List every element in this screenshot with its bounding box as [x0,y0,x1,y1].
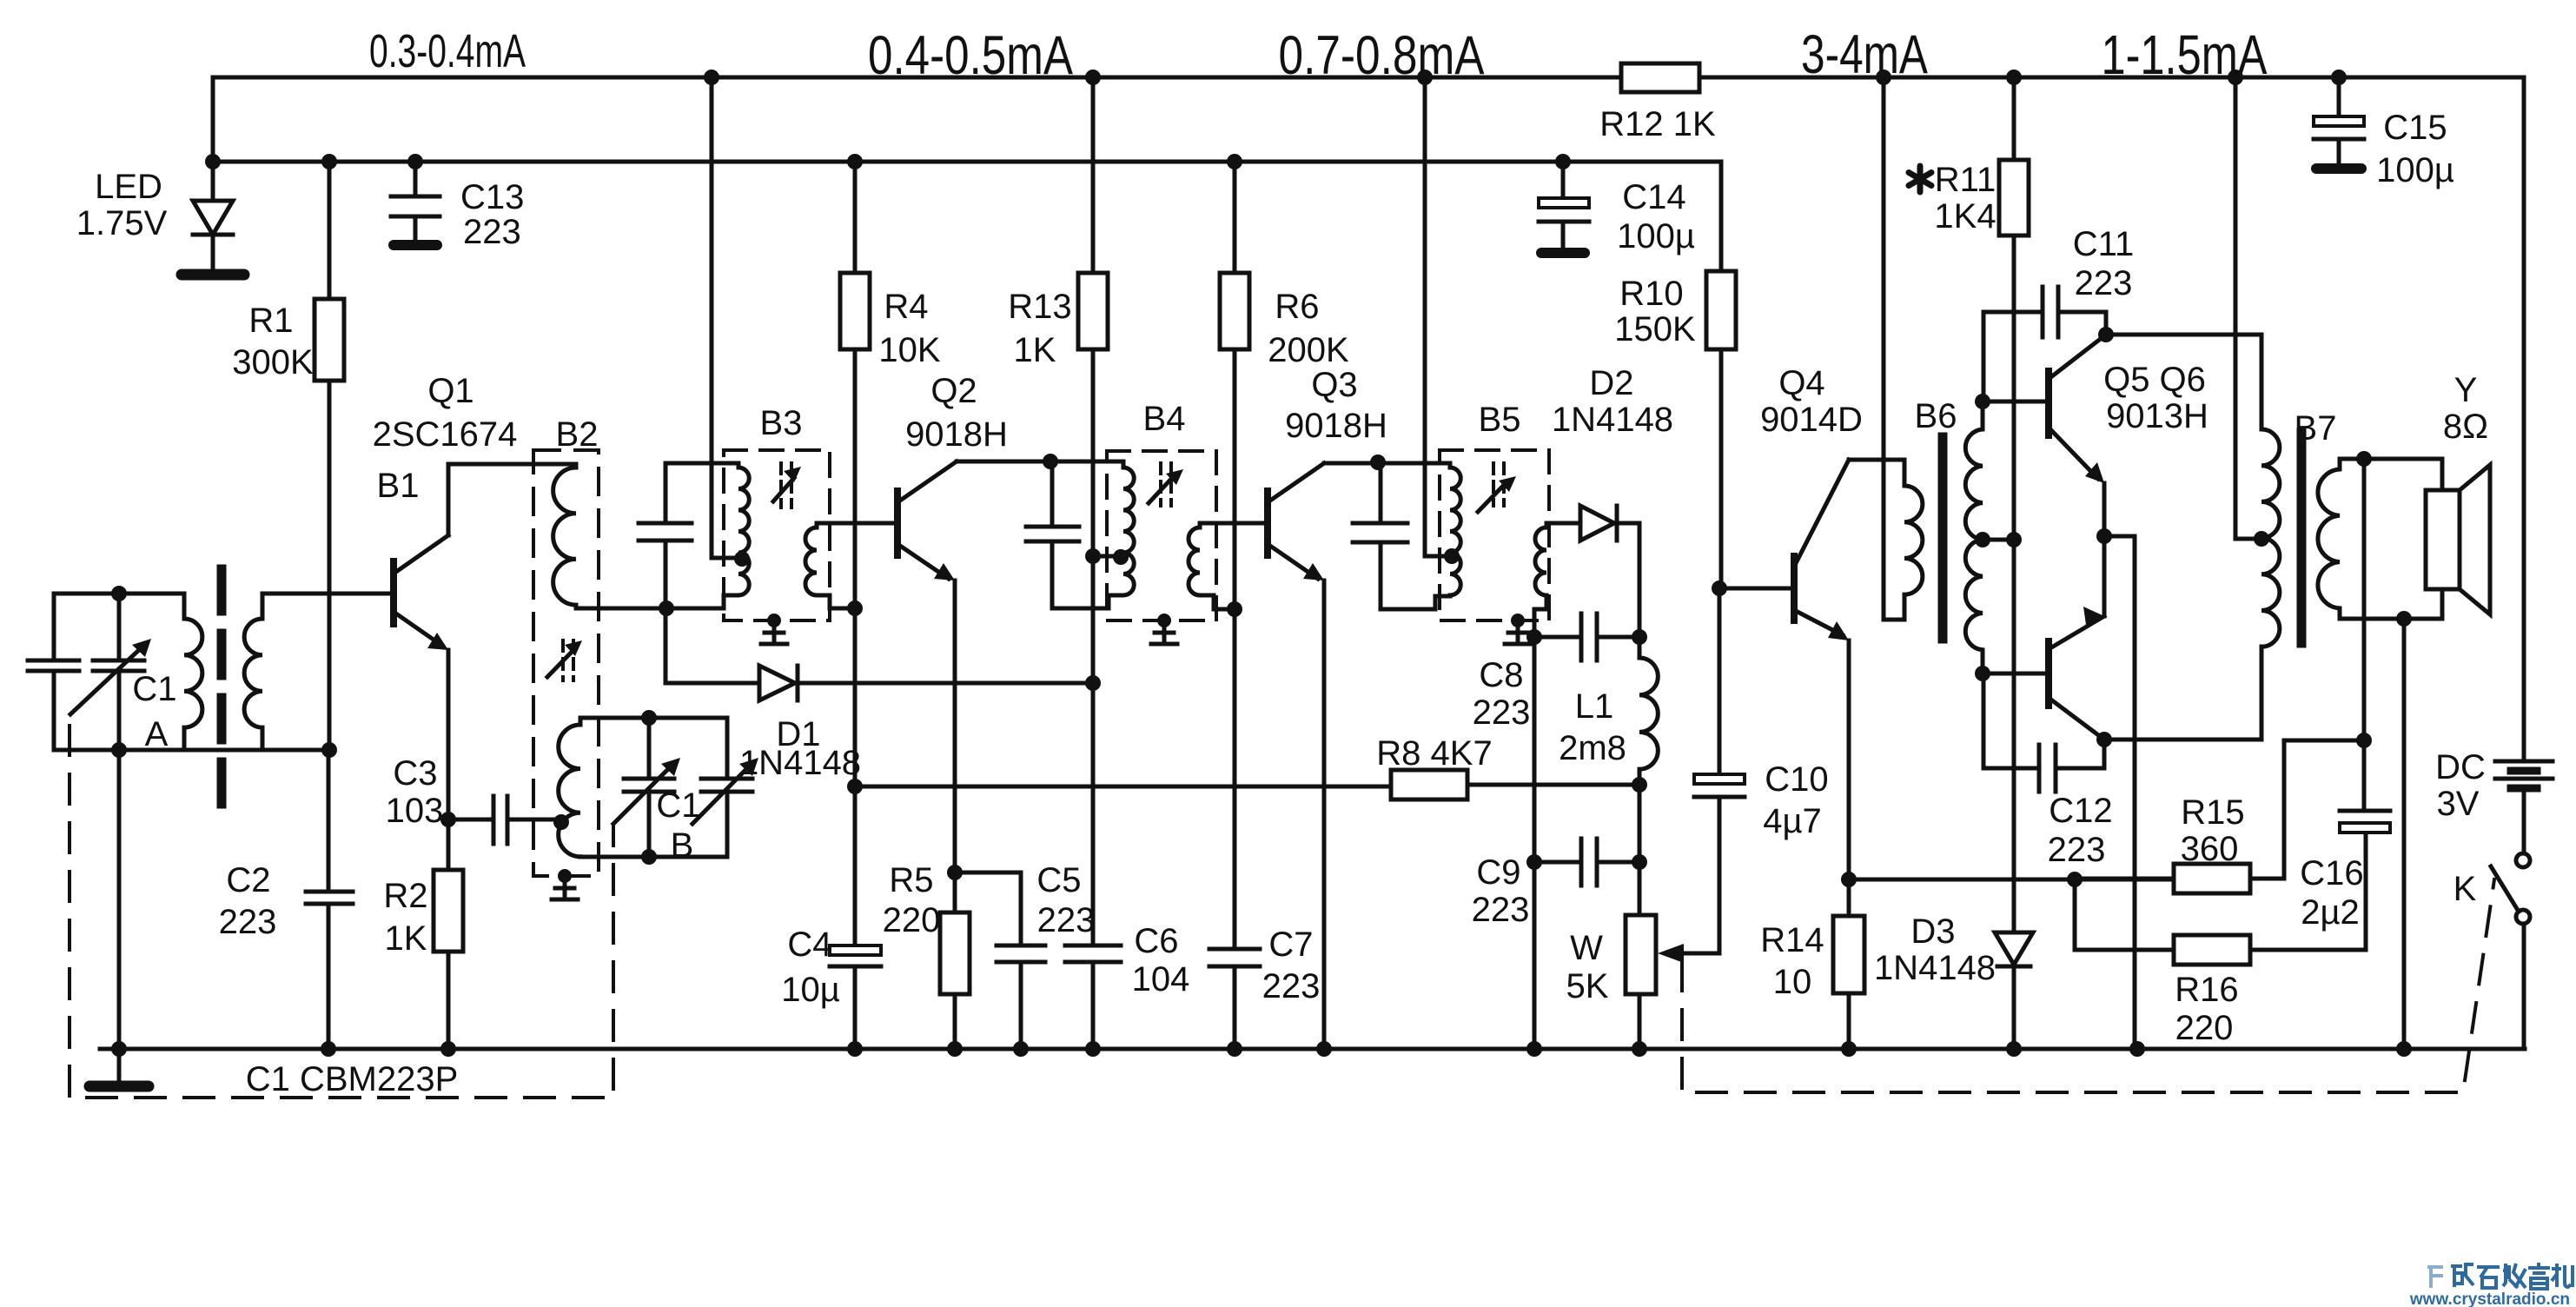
transformer B1 ferrite rod core (dashed bar) [217,569,227,808]
svg-text:C7: C7 [1268,926,1313,964]
transformer B6 primary winding [1904,460,1923,620]
transistor Q4 9014D [1794,460,1849,916]
speaker Y 8ohm [2426,465,2490,614]
svg-text:Q4: Q4 [1778,364,1824,402]
resistor R11 1K4 [1999,77,2029,932]
battery DC 3V [2495,77,2553,850]
svg-text:B2: B2 [556,415,599,454]
node: B1 secondary bottom / R1 / C2 [321,742,337,758]
capacitor C8 223 [1534,614,1639,660]
svg-text:1K: 1K [385,919,427,958]
svg-text:0.4-0.5mA: 0.4-0.5mA [868,25,1073,86]
arrow of C1-A [70,639,151,714]
svg-text:4µ7: 4µ7 [1763,802,1822,840]
svg-text:C16: C16 [2300,854,2363,892]
svg-text:1-1.5mA: 1-1.5mA [2102,23,2268,86]
svg-text:0.7-0.8mA: 0.7-0.8mA [1279,25,1485,86]
svg-text:150K: 150K [1614,310,1696,348]
ground symbol of B5 shield [1505,614,1531,644]
svg-text:100µ: 100µ [2376,151,2454,189]
transformer B2 primary winding [553,464,576,608]
resistor R15 360 [2075,740,2364,893]
arrow of C1-B section2 [692,758,758,824]
svg-text:223: 223 [1037,901,1096,939]
svg-text:C9: C9 [1476,853,1520,892]
svg-text:R12 1K: R12 1K [1599,105,1716,143]
transformer B5 primary winding [1450,463,1460,596]
svg-text:R13: R13 [1008,288,1071,326]
svg-text:R5: R5 [889,861,933,899]
node: top rail junctions [704,70,2347,85]
transformer B7 primary winding [2261,429,2280,647]
node: R11 bottom / center tap [2006,532,2022,547]
svg-text:300K: 300K [232,343,314,381]
wire: Q5 collector to B7 primary top [2106,335,2261,429]
svg-text:0.3-0.4mA: 0.3-0.4mA [369,25,526,77]
node: B3 secondary bottom / R4 / C4 / AGC [847,600,863,616]
capacitor C7 223 [1209,609,1260,1049]
svg-text:Y: Y [2454,371,2478,409]
svg-text:R6: R6 [1275,288,1319,326]
svg-text:LED: LED [95,168,162,206]
node: B7 primary center tap [2254,531,2269,547]
IF transformer B3 dashed box [724,450,830,620]
node: second rail junctions [205,154,1571,169]
svg-text:Q1: Q1 [427,372,473,410]
wire: B2 primary bottom to B3 [576,607,666,611]
transistor Q3 9018H [1268,463,1324,1049]
svg-text:B1: B1 [377,467,420,505]
svg-text:5K: 5K [1566,967,1609,1005]
wire: B4 secondary top to Q3 base [1200,521,1268,526]
transformer B7 secondary winding [2318,459,2340,619]
switch K [2491,853,2530,1049]
trimmer of B2 (dashed plates + arrow) [547,640,582,680]
node: Q6 collector [2096,732,2112,747]
svg-text:10: 10 [1773,963,1812,1001]
capacitor C10 4u7 (coupling, electrolytic) [1685,588,1745,953]
svg-text:1N4148: 1N4148 [1552,401,1673,439]
node: AGC line tap [847,779,863,794]
wire: feedback line to R15/R16 [1849,879,2174,950]
dashed gang enclosure of C1 [70,726,613,1098]
wire: Q6 collector to B7 primary bottom [2104,647,2261,740]
transistor Q5 9013H [2049,335,2106,536]
transformer B3 secondary winding [805,523,855,608]
resistor R12 1K (in top rail) [1621,63,1699,92]
ground (main left) [89,1081,149,1092]
svg-text:223: 223 [2048,831,2106,869]
transistor Q1 2SC1674 [394,464,448,819]
svg-text:C4: C4 [787,926,831,964]
wire: B5 supply feed from top rail [1425,77,1452,556]
svg-text:C1: C1 [132,670,176,708]
svg-text:B3: B3 [760,404,803,442]
node: C1-B bottom [641,849,657,865]
svg-text:9018H: 9018H [905,415,1008,454]
node: Q5/Q6 emitters [2096,528,2112,544]
node: Q4 base / C10 / R10 [1712,581,1727,596]
node: Q4 emitter / R14 / feedback [1841,872,1857,887]
node: B2 feedback tap to C3 [553,814,569,830]
node: ground rail junctions [111,1041,2412,1057]
diode D2 1N4148 (detector) [1546,506,1639,637]
node: C9 left [1526,854,1542,870]
capacitor C3 103 [448,796,561,844]
svg-text:220: 220 [2175,1009,2234,1047]
ground symbol of B4 shield [1151,614,1177,644]
transformer B4 primary winding [1109,461,1134,608]
wire: B3 secondary top to Q2 base [817,521,897,526]
LED 1.75V indicator diode [193,162,233,270]
variable capacitor C1-B top wire [580,716,727,720]
arrow of C1-B section1 [613,758,680,824]
transformer B6 core bar [1938,437,1948,639]
svg-text:C15: C15 [2383,109,2447,147]
svg-text:R2: R2 [383,877,427,915]
svg-text:DC: DC [2435,748,2486,786]
svg-text:B7: B7 [2295,409,2337,448]
oscillator coil B2 dashed shield box [533,450,599,876]
wire: C8/C9 ground column [1533,637,1537,1049]
node: B5 primary tap [1444,548,1460,564]
diode D3 1N4148 (bias) [1995,932,2033,1049]
resistor R6 200K [1220,162,1249,609]
svg-text:C1: C1 [656,786,700,825]
resistor R14 10 [1833,916,1864,1049]
svg-text:R10: R10 [1619,275,1683,313]
svg-text:B: B [671,826,694,865]
wire: B6 supply drop [1884,77,1904,620]
watermark logo [2427,1263,2573,1289]
svg-text:Q3: Q3 [1311,366,1357,404]
capacitor C4 10u (electrolytic) [830,608,881,1049]
svg-text:C12: C12 [2049,792,2112,830]
wire: Q1 collector to B2 primary [448,462,576,467]
svg-text:9013H: 9013H [2106,397,2208,435]
resistor R16 220 [2174,935,2366,965]
svg-text:223: 223 [219,903,277,941]
node: D1 cathode / R13 column [1085,675,1101,691]
svg-text:200K: 200K [1268,331,1349,369]
inductor L1 2m8 [1639,637,1658,785]
resistor R1 300K [315,162,344,750]
svg-text:C5: C5 [1036,861,1081,899]
node A top [111,586,127,601]
svg-text:C13: C13 [460,178,524,216]
svg-text:C2: C2 [226,861,270,899]
svg-text:C3: C3 [393,754,437,793]
wire: center tap to R11 [1983,538,2014,542]
transformer B1 secondary winding [244,594,262,750]
svg-text:Q5 Q6: Q5 Q6 [2103,361,2206,399]
svg-text:3V: 3V [2437,785,2480,823]
wire: Q2 collector to B4 [957,460,1123,464]
node: Q1 emitter / C3 / R2 [440,812,456,827]
resistor R4 10K [840,162,870,608]
transformer B5 secondary winding [1534,523,1546,637]
wire: emitters to ground [2104,536,2135,1049]
node: R15 / C16 top [2356,733,2372,748]
svg-text:2m8: 2m8 [1559,729,1626,767]
svg-text:C14: C14 [1622,178,1685,216]
wire: C1A junction to ground stub [117,750,122,1082]
wire: speaker bottom [2340,589,2442,619]
trimmer of B4 [1149,463,1183,506]
svg-text:R1: R1 [248,302,293,340]
capacitor C11 223 (Q5 fb) [1983,287,2106,401]
svg-text:C1 CBM223P: C1 CBM223P [246,1060,459,1098]
node A bottom [111,742,127,758]
wire: speaker top [2340,459,2442,490]
svg-text:R11: R11 [1935,161,1996,199]
wire: Q5 base [1983,400,2049,404]
capacitor C9 223 [1534,839,1639,886]
node: B6 secondary top / Q5 base [1975,394,1990,409]
wire: output node drop (C16/R15 to speaker hot) [2362,459,2367,740]
wire: L1 to volume control [1638,785,1642,1049]
svg-text:R8 4K7: R8 4K7 [1376,734,1492,773]
node: Q3 collector / C-B5 [1370,454,1386,470]
diode D1 1N4148 [666,608,1093,700]
capacitor C16 2u2 (electrolytic) [2340,740,2390,950]
trimmer of B3 [773,463,801,508]
label: R11 1K4 with asterisk [1909,166,1931,192]
node: C1-B top [641,710,657,726]
trimmer of B5 [1478,463,1516,512]
wire: B4 primary tap feed [1093,554,1121,559]
node: B2 primary bottom / D1 anode / C-B3 [659,600,674,616]
svg-text:L1: L1 [1575,687,1614,726]
svg-text:1.75V: 1.75V [76,204,168,242]
svg-text:1K4: 1K4 [1934,197,1996,236]
capacitor C14 100u (electrolytic) [1539,162,1589,253]
svg-text:223: 223 [1473,693,1531,732]
svg-text:A: A [145,715,169,753]
svg-text:223: 223 [1262,967,1321,1005]
svg-text:R15: R15 [2181,793,2244,832]
capacitor C15 100u (electrolytic) [2314,77,2364,169]
svg-text:W: W [1570,929,1603,967]
node: L1 bottom / R8 [1632,777,1647,793]
wire: B3 supply feed from top rail [712,77,742,558]
svg-text:100µ: 100µ [1617,217,1695,255]
svg-text:1N4148: 1N4148 [739,744,861,782]
svg-text:9014D: 9014D [1760,401,1863,439]
svg-text:223: 223 [2075,264,2133,302]
variable capacitor C1-B section 1 [624,718,674,857]
svg-text:B5: B5 [1479,401,1521,439]
svg-text:9018H: 9018H [1285,407,1387,445]
transformer B4 secondary winding [1189,523,1235,609]
svg-text:B4: B4 [1143,400,1186,438]
node: R13 to B4 tap wire [1085,548,1101,564]
svg-text:C11: C11 [2073,225,2134,263]
transformer B1 primary winding [184,594,202,750]
svg-text:2µ2: 2µ2 [2301,893,2360,932]
svg-text:D2: D2 [1589,364,1633,402]
capacitor C5 223 [955,872,1045,1049]
resistor R2 1K [434,819,463,1049]
IF transformer B4 dashed box [1107,451,1216,620]
capacitor C12 223 (Q6 fb) [1983,673,2104,792]
svg-text:R16: R16 [2175,971,2238,1009]
potentiometer W 5K [1626,915,1719,994]
ground symbol of B3 shield [761,614,787,644]
svg-text:K: K [2453,870,2477,908]
node: B6 center tap [1975,532,1990,547]
wire: V+ top rail [213,76,2524,80]
svg-text:220: 220 [883,901,941,939]
resistor R8 4K7 (AGC) with line [855,770,1639,799]
svg-text:10K: 10K [878,331,940,369]
resistor R5 220 [940,872,970,1049]
node: B4 secondary bottom / R6 / C7 [1227,601,1242,617]
node: Q2 collector / C-B4 [1043,454,1058,469]
node: detector output / C8 / L1 [1632,629,1647,645]
node: speaker hot tap [2356,451,2372,467]
node: C9 right / volume top [1632,854,1647,870]
svg-text:103: 103 [386,792,444,830]
capacitor C13 [391,162,440,245]
svg-text:B6: B6 [1915,397,1957,435]
svg-text:3-4mA: 3-4mA [1801,24,1928,85]
node: B6 secondary bottom / Q6 base [1975,666,1990,681]
variable capacitor C1-B bottom wire [580,855,727,859]
transistor Q6 9013H [2049,536,2104,740]
capacitor across B5 primary [1353,462,1450,609]
transistor Q2 9018H [897,461,957,872]
node: speaker return tap [2396,611,2412,627]
capacitor C1-A variable section [93,594,144,750]
svg-text:R14: R14 [1760,921,1824,959]
svg-text:Q2: Q2 [930,372,977,410]
wire: Q1 base from B1 secondary [262,592,394,596]
ground symbol of B2 shield [552,869,578,899]
capacitor C6 104 [1065,683,1121,1049]
svg-text:C8: C8 [1479,656,1523,694]
transformer B7 core bar [2297,433,2307,643]
transformer B3 primary winding [666,463,749,608]
transformer B6 secondary winding (center tapped) [1965,401,1983,673]
svg-text:2SC1674: 2SC1674 [373,415,518,454]
resistor R13 1K [1078,77,1108,683]
capacitor C2 223 [306,750,353,1049]
resistor R10 150K [1706,162,1794,588]
svg-text:360: 360 [2181,830,2239,868]
svg-text:223: 223 [1472,891,1530,929]
svg-text:D3: D3 [1910,912,1955,951]
svg-text:104: 104 [1132,960,1190,998]
node: C8 left [1526,629,1542,645]
dashed mechanical link (volume/switch gang) [1682,879,2494,1092]
capacitor across B4 primary [1026,461,1109,608]
node: B4 primary tap [1113,549,1129,565]
svg-text:1K: 1K [1014,331,1056,369]
wire: B7 center tap supply drop [2235,77,2261,539]
node: feedback / R16 stub [2067,872,2083,887]
wire: Q4 collector to B6 primary [1849,458,1904,462]
svg-text:C6: C6 [1134,922,1178,960]
node: Q5 collector [2098,327,2114,342]
transformer B2 secondary winding [559,718,580,857]
svg-text:10µ: 10µ [781,971,840,1009]
IF transformer B5 dashed box [1440,450,1549,620]
wire: Q3 collector to B5 [1324,461,1450,466]
wire: Q6 base [1983,672,2049,676]
capacitor C1-A fixed section wire loop [28,594,328,750]
node: Q2 emitter / R5 [947,865,963,880]
wire: speaker return to ground [2402,619,2407,1049]
wire: ground rail [100,1047,2525,1052]
svg-text:www.crystalradio.cn: www.crystalradio.cn [2409,1290,2570,1307]
svg-text:1N4148: 1N4148 [1874,949,1996,987]
wire: second supply rail [213,77,1721,162]
node: B3 primary tap [734,551,750,567]
ground (LED) [182,269,244,281]
variable capacitor C1-B section 2 (right leg) [701,718,752,857]
capacitor across B3 primary [639,463,738,608]
svg-text:C10: C10 [1765,760,1828,799]
svg-text:R4: R4 [884,288,928,326]
svg-text:8Ω: 8Ω [2443,408,2488,446]
svg-text:223: 223 [463,213,521,251]
